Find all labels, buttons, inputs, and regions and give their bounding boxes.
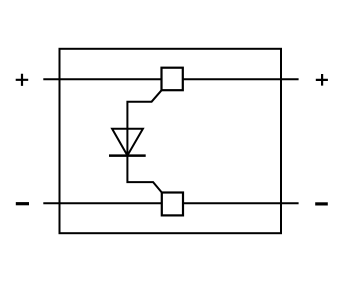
wire: minus rail (bottom) [43, 202, 298, 204]
label minus (right) [315, 202, 328, 205]
label plus (left) [16, 74, 29, 86]
diode D1 cathode bar [109, 154, 146, 157]
enclosure outline [60, 49, 282, 233]
label plus (right) [316, 74, 328, 86]
wire: diode branch [127, 90, 161, 192]
clamp terminal (top) [162, 68, 183, 91]
diode D1 anode triangle [112, 129, 143, 156]
clamp terminal (bottom) [162, 193, 183, 216]
label minus (left) [16, 202, 29, 205]
wire: plus rail (top) [43, 78, 298, 80]
